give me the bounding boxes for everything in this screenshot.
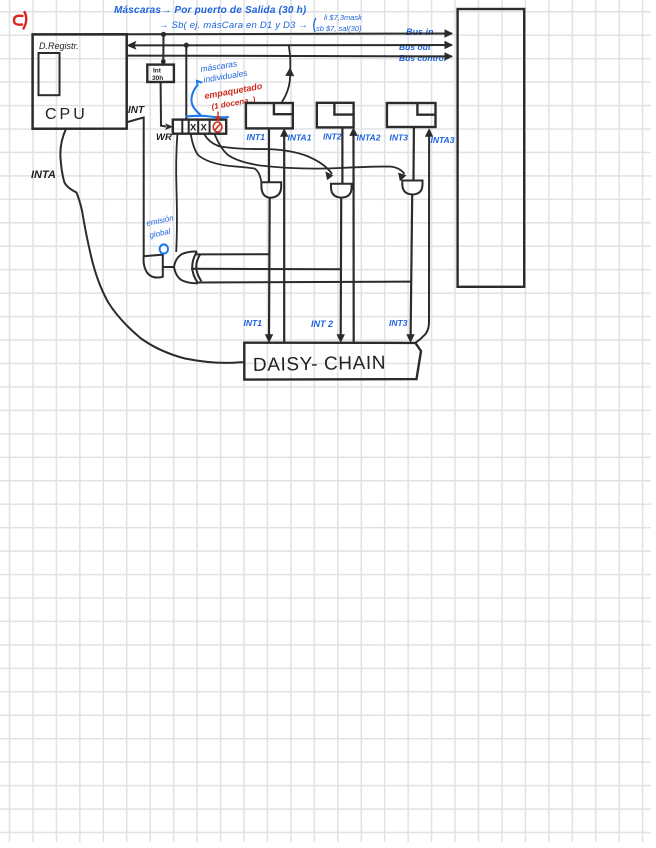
wire bus-out to mask register [185,45,187,119]
svg-text:li $7,3mask: li $7,3mask [324,13,363,22]
wire G5 input from INT3 line [196,281,410,284]
wire bus-out (middle bus line) [128,42,453,49]
svg-text:Int: Int [153,68,162,75]
mask bit 0 (red) [213,122,222,132]
label c) [14,12,26,29]
wire mask bit0 to gate G3 [215,134,406,181]
svg-text:WR: WR [156,132,172,143]
svg-text:INT3: INT3 [389,318,408,328]
wire INTA1 from daisy-chain to P1 [281,129,288,342]
red arrow to mask bit 0 [215,112,220,122]
svg-text:INT1: INT1 [247,132,266,142]
AND gate G4 (global enable) [144,255,163,278]
wire mask bit2 to gate G2 [204,134,333,180]
svg-text:X: X [201,123,208,134]
wire INTA3 from daisy-chain corner to P3 [416,129,433,342]
wire G1 output to daisy-chain INT1 [266,198,273,342]
daisy-chain controller U2 [244,343,421,380]
wire G4 to OR gate G5 [163,266,175,268]
peripheral device P1 [246,103,293,128]
wire INTA2 from daisy-chain to P2 [350,128,357,342]
AND gate G1 [261,182,281,197]
blue annotation: máscaras individuales [200,58,249,84]
AND gate G3 [402,181,422,195]
wire INT1 from P1 to gate G1 [268,129,270,182]
svg-text:D.Registr.: D.Registr. [39,41,79,51]
peripheral device P3 [387,103,436,127]
svg-text:INT: INT [128,105,145,116]
svg-text:INTA: INTA [31,169,56,181]
svg-text:CPU: CPU [45,106,88,123]
svg-text:INT 2: INT 2 [311,319,333,329]
wire P1 vector to bus-out [282,46,294,102]
wire G5 input from INT1 line [195,253,269,255]
red annotation: empaquetado (1 docena) [204,81,264,112]
wire WR from vector box to mask register [161,82,166,127]
annotation masks line1 (blue) [114,5,307,16]
wire bus-in (top bus line) [127,30,452,37]
wire G3 output to daisy-chain INT3 [407,195,414,342]
svg-text:INTA1: INTA1 [288,133,312,143]
junction on bus-in above vector register [161,32,166,37]
junction on bus-out above mask register [184,43,189,48]
blue annotation: emisión global [146,213,175,240]
svg-text:INTA2: INTA2 [357,133,381,143]
blue 0 mark [160,244,168,253]
OR gate G5 [174,252,202,284]
wire INT2 from P2 to gate G2 [341,127,343,183]
wire bus-control (bottom bus line) [127,53,452,60]
svg-text:sb $7, sal(30): sb $7, sal(30) [316,24,362,33]
interrupt controller / memory block U3 [458,9,525,287]
svg-text:INT2: INT2 [323,132,342,142]
svg-text:DAISY- CHAIN: DAISY- CHAIN [253,353,387,376]
CPU data register R0 [39,53,60,95]
svg-text:Bus in: Bus in [406,27,434,37]
svg-text:Bus out: Bus out [399,42,432,52]
svg-text:→ Sb( ej. másCara en D1 y D3 →: → Sb( ej. másCara en D1 y D3 → [159,20,308,31]
wire mask bit1 to gate G1 [191,134,262,182]
wire bus-in to vector register box [162,34,164,61]
svg-text:INT1: INT1 [244,318,263,328]
vector register box Int 30h [147,65,174,82]
svg-text:INT3: INT3 [390,133,409,143]
wire mask bit enable from register to G5 [176,134,177,252]
wire INT3 from P3 to gate G3 [412,127,415,181]
CPU U1 [33,34,127,129]
svg-text:Bus control: Bus control [399,53,447,63]
wire G2 output to daisy-chain INT2 [337,198,344,342]
wire G5 input from INT2 line [191,268,342,271]
svg-text:Máscaras→ Por puerto de Salida: Máscaras→ Por puerto de Salida (30 h) [114,5,307,16]
mask register R1 [173,120,226,134]
peripheral device P2 [317,103,354,128]
svg-text:INTA3: INTA3 [431,135,455,145]
svg-text:30h: 30h [152,75,163,82]
wire INTA from CPU to daisy-chain [60,129,243,363]
svg-text:X: X [190,123,197,134]
blue arrow to mask register [187,81,229,117]
wire CPU INT from OR output [127,118,144,257]
AND gate G2 [331,184,352,198]
